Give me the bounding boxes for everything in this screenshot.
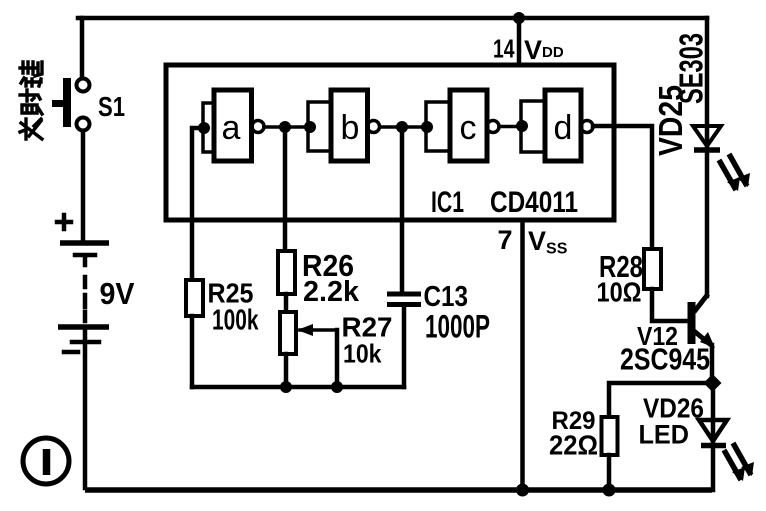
svg-text:VSS: VSS <box>528 226 568 258</box>
resistor R29 <box>602 417 618 455</box>
svg-text:VDD: VDD <box>524 35 564 65</box>
wire emitter node to VD26 <box>711 383 716 446</box>
pin 7 wire <box>520 220 525 490</box>
svg-text:22Ω: 22Ω <box>549 430 598 461</box>
junction node pin7 to bottom rail <box>516 484 529 497</box>
svg-text:IC1: IC1 <box>431 186 464 219</box>
junction node C13 tap <box>396 121 408 133</box>
wire top rail to switch S1 <box>80 18 85 77</box>
svg-text:100k: 100k <box>212 305 259 337</box>
svg-text:14: 14 <box>493 34 515 64</box>
NAND gate d of IC1 <box>521 90 593 161</box>
junction node wiper on rail <box>331 381 343 393</box>
infrared LED VD25 <box>693 126 750 191</box>
battery 9V <box>57 215 109 352</box>
label circled 1 <box>23 438 69 484</box>
wire gate a input to R25 <box>192 128 203 280</box>
svg-text:1000P: 1000P <box>425 309 490 345</box>
svg-text:c: c <box>460 109 477 147</box>
node gate b input <box>304 121 316 133</box>
svg-text:SE303: SE303 <box>673 33 710 104</box>
wire emitter node to R29 branch <box>609 383 712 417</box>
svg-text:7: 7 <box>498 225 513 255</box>
NAND gate b of IC1 <box>308 90 380 161</box>
NAND gate a of IC1 <box>203 90 264 161</box>
svg-text:LED: LED <box>639 420 690 450</box>
junction node emitter <box>704 374 722 392</box>
wire gate b output to gate c input <box>380 125 426 129</box>
node gate d input <box>516 120 528 132</box>
pin 14 wire <box>517 18 522 65</box>
wire right rail down to VD25 <box>705 18 710 296</box>
wire V12 emitter down to node <box>710 345 715 383</box>
svg-text:d: d <box>554 109 573 147</box>
svg-text:CD4011: CD4011 <box>490 186 578 219</box>
NAND gate c of IC1 <box>426 90 499 161</box>
potentiometer R27 <box>280 312 337 354</box>
wire battery minus to bottom rail <box>83 344 88 488</box>
junction node R29 bottom rail <box>603 484 616 497</box>
node gate c input <box>421 121 433 133</box>
resistor R28 <box>644 249 661 289</box>
svg-text:10k: 10k <box>343 339 382 369</box>
junction node pin14 on top rail <box>513 12 525 24</box>
svg-text:S1: S1 <box>98 91 125 122</box>
wire S1 to battery plus <box>81 131 86 240</box>
resistor R25 <box>186 280 203 316</box>
svg-text:2.2k: 2.2k <box>303 276 360 308</box>
wire R27 bottom to RC rail <box>284 354 289 387</box>
junction node R27 bottom on rail <box>280 381 292 393</box>
svg-text:9V: 9V <box>100 276 135 311</box>
junction node R26 tap <box>279 121 291 133</box>
svg-text:a: a <box>222 109 241 147</box>
wire R26 to R27 <box>284 294 289 312</box>
wire R25 to RC rail <box>190 316 195 387</box>
wire bottom rail <box>85 487 712 493</box>
svg-text:10Ω: 10Ω <box>597 277 642 308</box>
wire C13 tap down to C13 <box>400 127 405 292</box>
wire VD26 cathode to bottom rail <box>711 446 716 490</box>
switch S1 pushbutton <box>52 78 90 131</box>
capacitor C13 <box>387 294 421 305</box>
svg-text:2SC945: 2SC945 <box>620 342 710 377</box>
transistor V12 <box>692 294 716 348</box>
LED VD26 <box>699 420 754 481</box>
wire R28 to V12 base <box>652 289 688 321</box>
label 发射键 (transmit key, rotated) <box>20 62 42 139</box>
IC1 box outline <box>166 65 614 220</box>
svg-text:b: b <box>341 109 360 147</box>
wire gate a output to gate b input <box>264 125 308 129</box>
resistor R26 <box>278 251 295 294</box>
wire R29 to bottom rail <box>607 455 612 490</box>
node gate a input <box>198 122 210 134</box>
wire gate c output to gate d input <box>499 125 521 129</box>
wire R27 wiper to RC rail <box>335 330 340 387</box>
wire C13 to RC rail <box>402 307 407 387</box>
wire R26 tap down to R26 <box>283 127 288 251</box>
wire top rail <box>78 16 707 21</box>
wire RC bottom rail <box>192 385 404 390</box>
wire gate d output to R28 branch <box>593 126 652 249</box>
